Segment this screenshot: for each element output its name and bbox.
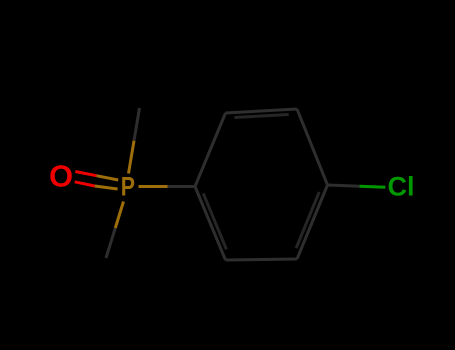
bond P to upper CH3, P half: [129, 141, 135, 174]
ring double bond inner line C2-C3: [234, 115, 288, 118]
ring bond C3-C4 (NE to E): [297, 109, 328, 185]
svg-text:Cl: Cl: [388, 172, 415, 202]
bond P to lower CH3, P half: [115, 202, 123, 229]
ring bond C5-C6 (SE to SW, bottom): [226, 259, 298, 260]
bond ring C4 to Cl, carbon half (gray): [328, 185, 360, 186]
bond ring to Cl, Cl half (green): [360, 186, 386, 187]
svg-text:P: P: [121, 172, 135, 202]
ring bond C2-C3 (NW to NE, top): [226, 109, 298, 113]
double bond P=O, lower line P half: [95, 186, 118, 189]
phosphorus bonds (olive halves): [95, 141, 168, 228]
bond ring C1 to P, carbon half (gray): [168, 185, 196, 188]
ring bond C1-C2 (W to NW): [195, 113, 226, 187]
bond P to lower CH3, carbon half (gray): [106, 228, 115, 258]
ring bond C6-C1 (SW to W): [195, 187, 226, 261]
ring double bond inner line C6-C1: [203, 193, 226, 249]
ring bond C4-C5 (E to SE): [297, 185, 328, 259]
svg-text:O: O: [49, 158, 73, 193]
ring double bond inner line C4-C5: [296, 192, 319, 248]
bond P to ring, P half: [139, 185, 168, 188]
double bond P=O, oxygen halves (red): [75, 172, 97, 187]
double bond P=O, upper line O half: [75, 172, 96, 176]
benzene ring C1-C6 (gray skeleton): [106, 108, 360, 260]
double bond P=O, lower line O half: [75, 182, 95, 186]
bond P to upper CH3, carbon half (gray): [134, 108, 140, 141]
double bond P=O, upper line P half: [96, 176, 118, 180]
